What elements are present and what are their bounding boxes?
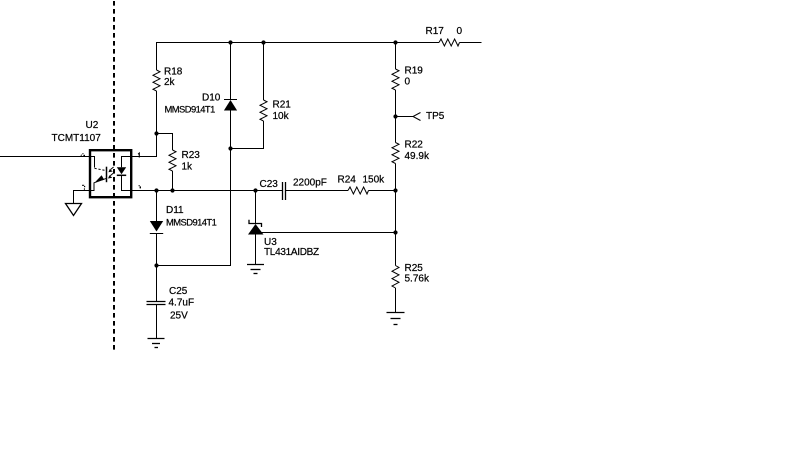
node junction D10 top rail xyxy=(228,40,232,44)
svg-text:D11: D11 xyxy=(166,205,184,216)
svg-text:10k: 10k xyxy=(273,111,290,122)
resistor R21 top lead xyxy=(263,43,265,101)
sheet boundary dashed line xyxy=(113,1,115,350)
ground R25 bar2 xyxy=(391,318,401,320)
svg-text:25V: 25V xyxy=(170,311,188,322)
opto U2 LED triangle xyxy=(117,167,126,174)
ground R25 bar1 xyxy=(387,312,405,314)
svg-text:1k: 1k xyxy=(182,161,194,172)
diode D11 cathode bar xyxy=(150,233,163,235)
svg-text:0: 0 xyxy=(405,76,411,87)
svg-text:R21: R21 xyxy=(273,99,292,110)
opto U2 light arrow 1 tail xyxy=(111,167,114,170)
ground U3 bar1 xyxy=(247,264,264,266)
pin number 2 opto bottom-right xyxy=(139,185,141,188)
svg-text:150k: 150k xyxy=(363,175,386,186)
wire feedback row (opto pin2 to C23) xyxy=(132,190,283,192)
svg-text:MMSD914T1: MMSD914T1 xyxy=(166,216,217,227)
resistor R23 xyxy=(169,150,176,171)
diode D10 triangle xyxy=(224,100,237,111)
svg-text:C25: C25 xyxy=(169,286,188,297)
svg-text:R25: R25 xyxy=(405,263,424,274)
node junction D11/C25/D10 return xyxy=(154,263,158,267)
wire D10 bottom lead down to return xyxy=(157,110,231,266)
wire junction to R23 top xyxy=(157,134,173,151)
svg-text:TL431AIDBZ: TL431AIDBZ xyxy=(264,247,319,258)
svg-text:TCMT1107: TCMT1107 xyxy=(52,133,102,144)
ground triangle (signal ground) xyxy=(66,204,82,216)
svg-text:C23: C23 xyxy=(260,179,279,190)
opto U2 LED anode lead xyxy=(122,157,131,168)
node junction TP5 xyxy=(393,114,397,118)
diode D10 cathode bar xyxy=(224,99,237,101)
diode D10 top lead xyxy=(230,43,232,100)
svg-text:2200pF: 2200pF xyxy=(293,178,327,189)
svg-text:R19: R19 xyxy=(405,66,424,77)
svg-text:R23: R23 xyxy=(182,150,201,161)
svg-text:R18: R18 xyxy=(164,67,183,78)
U3 reference wire to right rail xyxy=(262,232,396,234)
capacitor C25 plate top xyxy=(147,301,166,303)
svg-text:4.7uF: 4.7uF xyxy=(169,298,195,309)
opto U2 phototransistor collector lead xyxy=(91,157,95,168)
diode D11 anode lead xyxy=(156,191,158,222)
svg-text:R24: R24 xyxy=(338,174,357,185)
svg-text:R22: R22 xyxy=(405,139,424,150)
opto U2 LED cathode lead xyxy=(122,176,131,191)
diode D11 triangle xyxy=(150,221,163,232)
opto U2 base dashed lead xyxy=(95,168,106,170)
node junction right rail top xyxy=(393,40,397,44)
wire right rail top xyxy=(395,43,397,70)
ground U3 bar2 xyxy=(251,269,261,271)
wire C23 to R24 xyxy=(286,190,348,192)
svg-text:TP5: TP5 xyxy=(426,111,445,122)
capacitor C23 plate right xyxy=(285,182,287,200)
resistor R21 xyxy=(260,100,267,121)
opto U2 emitter lead xyxy=(91,178,107,190)
opto U2 emitter arrowhead xyxy=(95,175,104,182)
ground R25 bar3 xyxy=(394,324,398,326)
resistor R19 xyxy=(392,69,399,90)
opto U2 transistor base bar xyxy=(106,167,108,183)
node junction right rail U3 ref xyxy=(393,230,397,234)
test point TP5 arrow xyxy=(413,113,421,121)
opto U2 box xyxy=(90,150,131,197)
capacitor C23 plate left xyxy=(282,182,284,200)
node junction R18/R23/opto xyxy=(154,131,158,135)
wire U3 anode to ground xyxy=(255,235,257,265)
node junction R21 top rail xyxy=(261,40,265,44)
opto U2 light arrow 2 tail xyxy=(110,173,113,176)
pin number 4 opto top-left xyxy=(81,153,85,157)
wire R18 bottom lead xyxy=(156,91,158,134)
resistor R24 xyxy=(348,187,369,194)
resistor R22 xyxy=(392,143,399,164)
pin number 1 opto top-right xyxy=(138,153,139,157)
wire opto input xyxy=(0,156,90,158)
node junction D11 top xyxy=(154,188,158,192)
node junction right rail feedback xyxy=(393,188,397,192)
svg-text:5.76k: 5.76k xyxy=(405,274,430,285)
U3 cathode bar with bent ends xyxy=(249,220,262,227)
wire opto pin3 to ground triangle xyxy=(74,191,91,204)
node junction U3 cathode branch xyxy=(253,188,257,192)
wire junction to opto pin4 xyxy=(132,134,157,157)
ground C25 bar2 xyxy=(152,343,160,345)
wire top rail xyxy=(157,43,440,71)
pin number 3 opto bottom-left xyxy=(82,185,85,190)
wire R23 bottom lead xyxy=(172,171,174,191)
opto U2 light arrow 2 head xyxy=(108,175,112,178)
resistor R18 xyxy=(153,70,160,91)
wire R22 bottom to junctions xyxy=(395,164,397,266)
opto U2 LED cathode bar xyxy=(117,174,126,176)
wire R24 to right rail xyxy=(369,190,396,192)
svg-text:D10: D10 xyxy=(202,92,221,103)
U3 triangle xyxy=(248,224,264,235)
wire R19 to TP5 node xyxy=(395,90,397,143)
node junction D10/R21 xyxy=(228,146,232,150)
svg-text:U2: U2 xyxy=(86,120,99,131)
svg-text:0: 0 xyxy=(457,26,463,37)
test point TP5 stub xyxy=(396,116,414,118)
opto U2 light arrow 1 head xyxy=(108,169,112,172)
capacitor C25 plate bottom xyxy=(147,304,166,306)
shunt reference U3 cathode lead xyxy=(255,191,257,225)
wire D11 cathode lead xyxy=(156,234,158,302)
wire R25 to ground xyxy=(395,288,397,313)
resistor R17 xyxy=(439,39,460,46)
opto U2 pin1 wire to node xyxy=(132,156,157,158)
node junction R23 bottom xyxy=(170,188,174,192)
ground U3 bar3 xyxy=(254,273,258,275)
svg-text:R17: R17 xyxy=(426,26,445,37)
ground C25 bar1 xyxy=(148,338,165,340)
resistor R25 xyxy=(392,266,399,289)
svg-text:MMSD914T1: MMSD914T1 xyxy=(165,103,216,114)
wire C25 to ground xyxy=(156,305,158,339)
svg-text:49.9k: 49.9k xyxy=(405,151,430,162)
ground C25 bar3 xyxy=(155,347,159,349)
svg-text:2k: 2k xyxy=(164,77,176,88)
wire R21 bottom lead xyxy=(231,121,264,149)
wire top rail right of R17 xyxy=(460,42,482,44)
